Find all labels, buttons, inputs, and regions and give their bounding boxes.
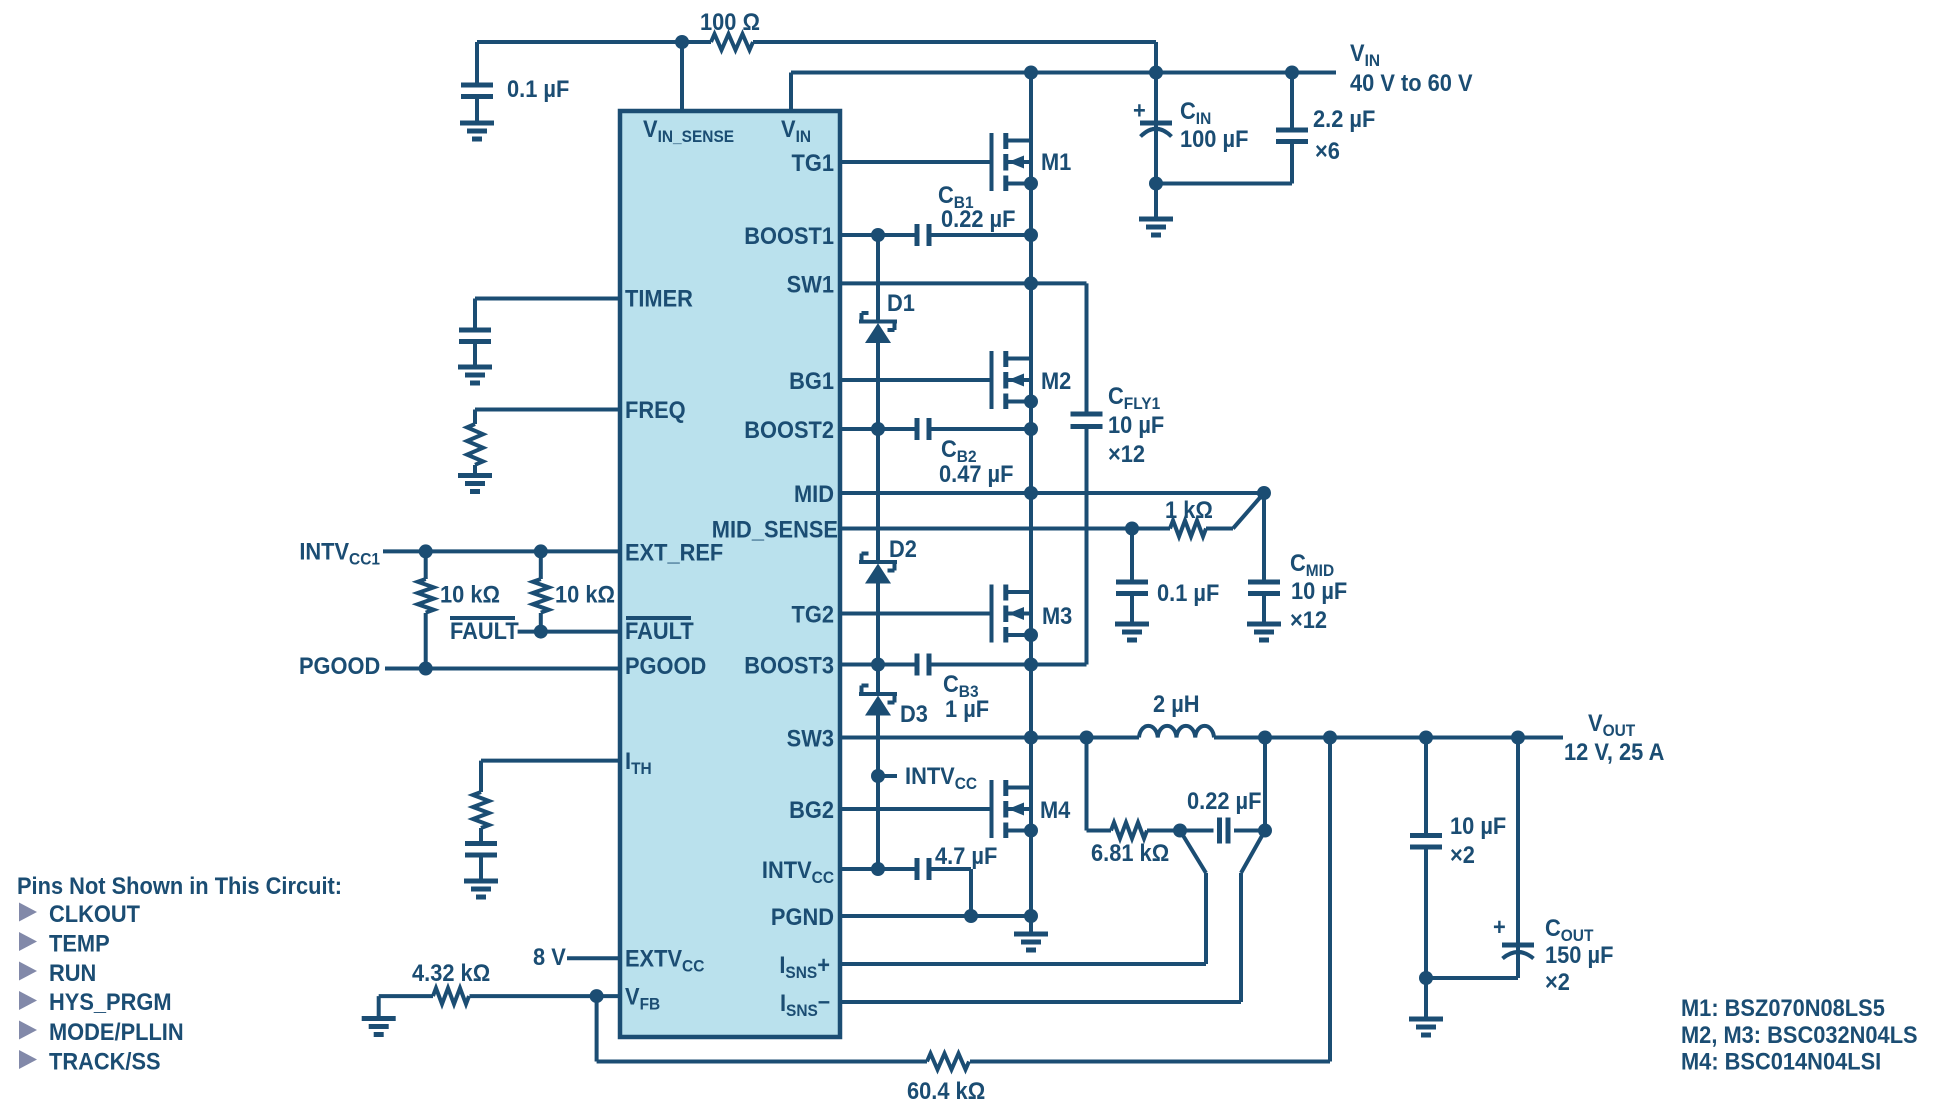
capacitor COUT polarized x=1518 xyxy=(1516,738,1520,979)
node M2 source xyxy=(1024,395,1038,409)
capacitor on TIMER xyxy=(459,330,491,342)
ground below ITH cap xyxy=(464,881,498,897)
svg-text:M1: BSZ070N08LS5: M1: BSZ070N08LS5 xyxy=(1681,994,1885,1021)
node EXT_REF 10k left xyxy=(419,544,433,558)
svg-text:TG2: TG2 xyxy=(792,601,834,628)
svg-text:0.1 µF: 0.1 µF xyxy=(1157,579,1219,606)
node FAULT 10k xyxy=(534,625,548,639)
node 4.7uF PGND xyxy=(964,909,978,923)
svg-text:8 V: 8 V xyxy=(533,943,566,970)
svg-text:FAULT: FAULT xyxy=(625,617,694,644)
svg-text:×12: ×12 xyxy=(1108,440,1145,467)
capacitor 0.1uF top-left with lead xyxy=(475,42,479,123)
node MID_SENSE filter tap xyxy=(1125,522,1139,536)
svg-text:4.7 µF: 4.7 µF xyxy=(935,842,997,869)
wire bootstrap bus x=878 BOOST1 to D1 xyxy=(876,235,880,322)
node 6.81k-0.22uF junction ISNS+ xyxy=(1173,824,1187,838)
ground below TIMER cap xyxy=(458,367,492,383)
svg-text:TEMP: TEMP xyxy=(49,930,110,957)
capacitor CIN polarized x=1156 xyxy=(1154,73,1158,184)
node BOOST3 bus tap xyxy=(871,658,885,672)
node PGOOD 10k xyxy=(419,662,433,676)
svg-text:M2: M2 xyxy=(1041,367,1071,394)
resistor R-1k xyxy=(1170,521,1206,537)
svg-text:6.81 kΩ: 6.81 kΩ xyxy=(1091,839,1169,866)
resistor R-6.81k xyxy=(1111,823,1147,839)
svg-text:100 µF: 100 µF xyxy=(1180,125,1248,152)
svg-text:M3: M3 xyxy=(1042,602,1072,629)
wire diagonal 1k to MID node xyxy=(1233,493,1264,529)
wire bus D1 anode to D2 cathode through BOOST2 xyxy=(876,343,880,562)
wire MID line y=493 xyxy=(840,491,1264,495)
diode D2 zener xyxy=(859,554,897,584)
svg-text:10 kΩ: 10 kΩ xyxy=(440,581,500,608)
IC U1 LTC7821 block xyxy=(620,111,840,1037)
wire FREQ pin resistor xyxy=(475,410,620,476)
wire TG1 pin to M1 gate xyxy=(840,160,992,164)
inductor L-2uH xyxy=(1139,726,1214,738)
note bullet HYS_PRGM xyxy=(19,991,37,1010)
capacitor 0.22uF output sense xyxy=(1180,829,1265,833)
node SW3 0.22uF branch xyxy=(1258,731,1272,745)
transistor M1 xyxy=(992,133,1032,191)
svg-text:4.32 kΩ: 4.32 kΩ xyxy=(412,959,490,986)
svg-text:10 µF: 10 µF xyxy=(1108,411,1164,438)
node M1 drain on VIN rail xyxy=(1024,66,1038,80)
capacitor on ITH xyxy=(465,844,497,856)
node VOUT 10uF tap xyxy=(1419,731,1433,745)
svg-text:0.22 µF: 0.22 µF xyxy=(941,205,1015,232)
wire SW1 line y=283.4 to CFLY1 xyxy=(840,283,1087,414)
resistor R-100ohm xyxy=(711,34,753,50)
svg-text:TIMER: TIMER xyxy=(625,285,693,312)
transistor M3 xyxy=(992,585,1032,643)
svg-text:FREQ: FREQ xyxy=(625,396,686,423)
ground below CIN xyxy=(1139,219,1173,235)
svg-text:10 kΩ: 10 kΩ xyxy=(555,581,615,608)
node VOUT COUT tap xyxy=(1511,731,1525,745)
svg-text:40 V to 60 V: 40 V to 60 V xyxy=(1350,69,1473,96)
capacitor CB1 plates xyxy=(917,224,929,246)
wire BOOST2 line y=429 with CB2 xyxy=(840,427,1031,431)
wire BG1 pin to M2 gate xyxy=(840,378,992,382)
wire feedback from VOUT tap x=1330 down and left (60.4k) xyxy=(597,738,1330,1062)
transistor M4 xyxy=(992,780,1032,838)
wire VIN rail y=72.5 xyxy=(791,73,1336,112)
ground below 0.1uF filter xyxy=(1115,624,1149,640)
svg-text:TG1: TG1 xyxy=(792,149,835,176)
node MID rail xyxy=(1024,486,1038,500)
ground below 0.1uF xyxy=(460,123,494,139)
node INTVCC 4.7uF tap xyxy=(871,862,885,876)
resistor R-10k left xyxy=(424,551,428,668)
svg-text:MID: MID xyxy=(794,480,834,507)
capacitor 2.2uF x=1292 xyxy=(1290,73,1294,184)
svg-text:EXT_REF: EXT_REF xyxy=(625,539,723,566)
wire MID_SENSE line y=528.5 with 1k resistor xyxy=(840,527,1233,531)
ground below PGND at M4 source rail xyxy=(1014,934,1048,950)
wire top rail y=42 from 0.1uF to 100ohm resistor to CIN column xyxy=(477,42,1156,73)
svg-text:BOOST2: BOOST2 xyxy=(744,416,834,443)
capacitor CB2 plates xyxy=(917,418,929,440)
svg-text:×2: ×2 xyxy=(1450,841,1475,868)
resistor R-10k right xyxy=(539,551,543,631)
wire bus D2 anode to D3 cathode through BOOST3 xyxy=(876,583,880,694)
resistor on FREQ xyxy=(467,424,483,465)
wire VIN_SENSE drop x=682 xyxy=(680,42,684,111)
capacitor CMID x=1264 xyxy=(1262,493,1266,624)
ground below 4.32k left end xyxy=(362,1019,396,1035)
svg-text:MODE/PLLIN: MODE/PLLIN xyxy=(49,1018,184,1045)
wire EXT_REF line y=551.4 from INTVCC1 xyxy=(383,549,620,553)
ground below FREQ resistor xyxy=(458,476,492,492)
node 0.22uF right ISNS- xyxy=(1258,824,1272,838)
wire PGOOD line y=668.5 xyxy=(385,667,620,671)
node VOUT feedback tap xyxy=(1323,731,1337,745)
note bullet RUN xyxy=(19,962,37,981)
wire TG2 pin to M3 gate xyxy=(840,612,992,616)
svg-text:D2: D2 xyxy=(889,535,917,562)
wire TIMER pin RC xyxy=(475,299,620,331)
node VIN_SENSE junction xyxy=(675,35,689,49)
svg-text:HYS_PRGM: HYS_PRGM xyxy=(49,988,172,1015)
diode D1 zener xyxy=(859,313,897,343)
node CB3 right xyxy=(1024,658,1038,672)
wire INTVCC pin line y=869 with 4.7uF xyxy=(840,869,971,916)
wire CIN bottom to ground and to 2.2uF bottom xyxy=(1156,184,1292,220)
svg-text:1 kΩ: 1 kΩ xyxy=(1165,496,1213,523)
svg-text:BG2: BG2 xyxy=(789,796,834,823)
svg-text:MID_SENSE: MID_SENSE xyxy=(712,516,838,543)
node SW1 rail xyxy=(1024,276,1038,290)
svg-text:+: + xyxy=(1493,913,1506,940)
svg-text:×2: ×2 xyxy=(1545,968,1570,995)
wire output caps bottom line to ground xyxy=(1426,978,1518,1019)
svg-text:2 µH: 2 µH xyxy=(1153,690,1200,717)
resistor R-4.32k xyxy=(433,988,469,1004)
svg-text:FAULT: FAULT xyxy=(450,617,519,644)
wire VFB line y=996.1 with 4.32k xyxy=(379,996,620,1018)
svg-text:10 µF: 10 µF xyxy=(1291,577,1347,604)
svg-text:BOOST1: BOOST1 xyxy=(744,222,834,249)
node CIN bottom xyxy=(1149,177,1163,191)
wire 0.22uF right node up to SW3 xyxy=(1263,738,1267,831)
note bullet MODE/PLLIN xyxy=(19,1021,37,1040)
note bullet CLKOUT xyxy=(19,903,37,922)
svg-text:PGOOD: PGOOD xyxy=(625,652,706,679)
resistor R-60.4k xyxy=(927,1054,969,1070)
svg-text:0.1 µF: 0.1 µF xyxy=(507,75,569,102)
node output caps bottom xyxy=(1419,971,1433,985)
node INTVCC stub tap xyxy=(871,769,885,783)
svg-text:12 V, 25 A: 12 V, 25 A xyxy=(1564,738,1664,765)
wire ISNS+ line y=964 xyxy=(840,831,1206,965)
wire BOOST1 line y=235 with CB1 xyxy=(840,233,1031,237)
wire ISNS- line y=1002 xyxy=(840,831,1265,1003)
node BOOST1 bus tap xyxy=(871,228,885,242)
node EXT_REF 10k right xyxy=(534,544,548,558)
wire EXTVCC 8V stub xyxy=(567,956,620,960)
node VFB junction xyxy=(590,989,604,1003)
transistor M2 xyxy=(992,351,1032,409)
wire SW3 output line y=737.5 xyxy=(840,736,1563,740)
capacitor CB3 plates xyxy=(917,654,929,676)
resistor on ITH xyxy=(473,792,489,828)
svg-text:D1: D1 xyxy=(887,289,915,316)
node SW3 6.81k branch xyxy=(1080,731,1094,745)
svg-text:PGOOD: PGOOD xyxy=(299,652,380,679)
node CB1 right xyxy=(1024,228,1038,242)
node SW3 rail xyxy=(1024,731,1038,745)
svg-text:Pins Not Shown in This Circuit: Pins Not Shown in This Circuit: xyxy=(17,872,342,899)
svg-text:M2, M3: BSC032N04LS: M2, M3: BSC032N04LS xyxy=(1681,1021,1918,1048)
wire BOOST3 line y=664.5 with CB3 to CFLY1 bottom xyxy=(840,663,1087,667)
svg-text:BOOST3: BOOST3 xyxy=(744,652,834,679)
wire BG2 pin to M4 gate xyxy=(840,807,992,811)
node M1 source SW1 xyxy=(1024,177,1038,191)
svg-text:150 µF: 150 µF xyxy=(1545,941,1613,968)
wire ITH pin RC xyxy=(481,761,620,881)
wire bus D3 anode to INTVCC stub and 4.7uF line xyxy=(876,715,880,869)
svg-text:SW1: SW1 xyxy=(787,270,835,297)
svg-text:60.4 kΩ: 60.4 kΩ xyxy=(907,1077,985,1104)
svg-text:10 µF: 10 µF xyxy=(1450,812,1506,839)
svg-text:RUN: RUN xyxy=(49,959,96,986)
node CB2 right xyxy=(1024,422,1038,436)
wire CFLY1 bottom to BOOST3 line xyxy=(1085,427,1089,665)
node BOOST2 bus tap xyxy=(871,422,885,436)
capacitor CFLY1 x=1086.5 xyxy=(1071,414,1103,427)
svg-text:M4: M4 xyxy=(1040,796,1071,823)
svg-text:+: + xyxy=(1133,97,1146,124)
svg-text:100 Ω: 100 Ω xyxy=(700,8,760,35)
wire FAULT line y=631.6 xyxy=(518,630,620,634)
node PGND rail xyxy=(1024,909,1038,923)
node M3 source xyxy=(1024,628,1038,642)
svg-text:0.22 µF: 0.22 µF xyxy=(1187,787,1261,814)
node M4 source xyxy=(1024,824,1038,838)
svg-text:M4: BSC014N04LSI: M4: BSC014N04LSI xyxy=(1681,1048,1881,1075)
svg-text:×6: ×6 xyxy=(1315,137,1340,164)
capacitor 10uF x2 output x=1426 xyxy=(1424,738,1428,979)
capacitor 0.1uF MID_SENSE filter x=1132 xyxy=(1130,529,1134,625)
wire 6.81k branch from SW3 xyxy=(1087,738,1181,831)
svg-text:TRACK/SS: TRACK/SS xyxy=(49,1048,161,1075)
capacitor 4.7uF plates xyxy=(917,858,929,880)
svg-text:CLKOUT: CLKOUT xyxy=(49,900,140,927)
ground below 10uF x2 xyxy=(1409,1019,1443,1035)
node 2.2uF top xyxy=(1285,66,1299,80)
diode D3 zener xyxy=(859,686,897,716)
node MID right CMID xyxy=(1257,486,1271,500)
svg-text:2.2 µF: 2.2 µF xyxy=(1313,105,1375,132)
svg-text:M1: M1 xyxy=(1041,148,1072,175)
svg-text:PGND: PGND xyxy=(771,903,834,930)
svg-text:×12: ×12 xyxy=(1290,606,1327,633)
wire MOSFET right rail x=1031 from VIN rail down to ground xyxy=(1029,73,1033,935)
node CIN top xyxy=(1149,66,1163,80)
note bullet TEMP xyxy=(19,932,37,951)
note bullet TRACK/SS xyxy=(19,1050,37,1069)
svg-text:D3: D3 xyxy=(900,700,928,727)
wire INTVCC stub at y=776 xyxy=(878,774,897,778)
svg-text:1 µF: 1 µF xyxy=(945,695,989,722)
ground below CMID xyxy=(1247,624,1281,640)
svg-text:BG1: BG1 xyxy=(789,367,834,394)
svg-text:0.47 µF: 0.47 µF xyxy=(939,460,1013,487)
svg-text:SW3: SW3 xyxy=(787,725,834,752)
wire PGND line y=916 xyxy=(840,914,1031,918)
